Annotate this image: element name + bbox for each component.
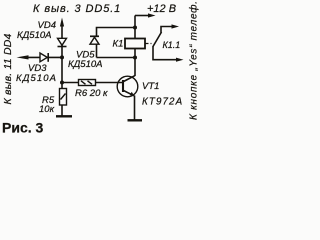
contact K1.1 fixed terminal — [161, 27, 172, 33]
wire: pivot lead down — [153, 46, 176, 60]
svg-text:Рис. 3: Рис. 3 — [2, 120, 44, 136]
diode VD3 — [40, 53, 48, 62]
svg-text:К выв. 11 DD4: К выв. 11 DD4 — [2, 33, 14, 104]
svg-text:К выв. 3 DD5.1: К выв. 3 DD5.1 — [33, 3, 121, 15]
mechanical link K1 to K1.1 (dash-dot) — [146, 43, 154, 45]
off-page arrow up to DD5.1 — [60, 18, 64, 27]
node junction (62,57.4) — [60, 55, 64, 59]
wire: emitter down — [134, 96, 136, 121]
arrow (bottom contact lead) — [176, 58, 184, 62]
wire: +12V horizontal — [135, 15, 149, 17]
diode VD5 — [90, 36, 99, 44]
svg-text:КД510А: КД510А — [16, 73, 57, 84]
wire: VD5 bottom to collector — [97, 57, 136, 59]
node junction (135,57.5) — [133, 56, 137, 60]
svg-text:10к: 10к — [39, 104, 55, 115]
wire: base rail R6 left — [62, 82, 79, 84]
ground (VT1) — [128, 119, 143, 121]
off-page arrow left to DD4 — [17, 55, 29, 59]
wire: R5 to ground — [61, 105, 63, 116]
resistor R5 — [60, 89, 67, 106]
contact K1.1 moving arm — [153, 32, 162, 47]
wire: VD5 top rail — [97, 28, 136, 58]
svg-text:К кнопке „Yes“ телеф.: К кнопке „Yes“ телеф. — [187, 0, 199, 120]
arrow (top contact lead) — [172, 24, 180, 28]
svg-text:К1.1: К1.1 — [163, 40, 181, 50]
emitter arrowhead — [130, 92, 134, 96]
node junction (135,27.5) — [133, 26, 137, 30]
transistor VT1 — [117, 76, 138, 97]
diode VD4 — [58, 38, 67, 46]
svg-text:R6 20 к: R6 20 к — [75, 88, 108, 99]
wire: base rail R6 right — [96, 82, 123, 84]
wire: VD3 horizontal — [27, 56, 62, 58]
resistor R6 — [79, 80, 96, 86]
svg-text:VT1: VT1 — [142, 81, 159, 92]
arrow to +12 V — [148, 13, 156, 17]
svg-text:КТ972А: КТ972А — [142, 97, 183, 108]
relay coil K1 — [125, 39, 145, 49]
ground (R5) — [56, 115, 72, 117]
svg-text:КД510А: КД510А — [17, 30, 51, 41]
wire: collector up to K1 — [134, 39, 136, 77]
svg-text:К1: К1 — [113, 39, 124, 50]
node junction (62,82.5) — [60, 81, 64, 85]
wire: VD4 branch vertical — [61, 25, 63, 89]
svg-text:КД510А: КД510А — [68, 59, 102, 70]
wire: +12V vertical — [134, 16, 136, 39]
svg-text:+12 В: +12 В — [147, 3, 176, 15]
